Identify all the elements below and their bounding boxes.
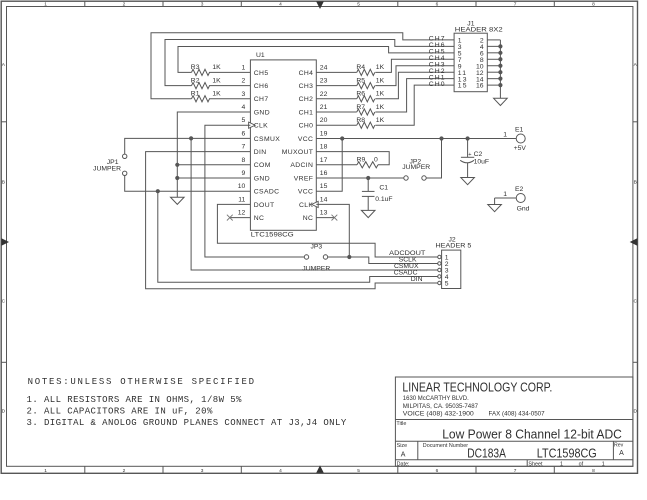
svg-text:1630 McCARTHY BLVD.: 1630 McCARTHY BLVD. [403,395,469,402]
svg-text:0.1uF: 0.1uF [375,196,392,203]
svg-text:2. ALL CAPACITORS ARE IN uF, 2: 2. ALL CAPACITORS ARE IN uF, 20% [27,406,213,416]
wire CH4 net (pin 24 to J1) [316,71,357,73]
svg-text:JUMPER: JUMPER [302,266,330,273]
border center arrow right [630,238,638,246]
wires J1 even pins to ground [487,39,500,41]
svg-text:0: 0 [374,157,378,164]
svg-text:5: 5 [242,117,246,124]
wire DOUT net pin 11 to J2 pin 1 [217,204,437,257]
svg-text:LTC1598CG: LTC1598CG [537,446,597,461]
svg-text:E2: E2 [515,186,524,193]
svg-text:NC: NC [254,215,265,222]
svg-text:15: 15 [320,183,328,190]
svg-text:CLK: CLK [299,202,313,209]
svg-text:6: 6 [436,2,439,8]
svg-text:12: 12 [238,210,246,217]
svg-text:of: of [579,461,584,467]
svg-text:10: 10 [238,183,246,190]
ground symbol at E2 [488,205,502,212]
svg-text:6: 6 [242,130,246,137]
svg-text:DIN: DIN [411,276,423,283]
svg-text:4: 4 [279,468,282,474]
wire GND pin 9 [177,177,250,179]
capacitor C1 [367,178,369,191]
svg-text:16: 16 [320,170,328,177]
resistor R6 [357,96,375,102]
svg-text:8: 8 [242,157,246,164]
svg-text:5: 5 [357,2,360,8]
resistor R4 [357,69,375,75]
svg-text:ADCIN: ADCIN [290,162,313,169]
border center arrow top [316,2,324,10]
IC U1 body (LTC1598CG 8-channel 12-bit ADC) [250,60,316,230]
junction C2 branch [466,136,470,140]
svg-text:14: 14 [320,196,328,203]
svg-text:R6: R6 [356,91,365,98]
svg-text:CH7: CH7 [254,96,269,103]
svg-text:HEADER 8X2: HEADER 8X2 [455,26,503,33]
svg-text:R5: R5 [356,77,365,84]
svg-text:3: 3 [201,2,204,8]
svg-text:7: 7 [514,2,517,8]
wire CH2 net (pin 22 to J1) [316,98,357,100]
border column tick marks [84,1,86,6]
svg-text:CH6: CH6 [254,83,269,90]
ground symbol below C2 [461,178,475,185]
svg-text:+: + [468,152,471,158]
svg-text:21: 21 [320,104,328,111]
svg-text:18: 18 [320,144,328,151]
jumper JP2 [404,176,408,180]
svg-text:1. ALL RESISTORS ARE IN OHMS,: 1. ALL RESISTORS ARE IN OHMS, 1/8W 5% [27,395,243,405]
svg-text:Date:: Date: [397,461,410,467]
svg-text:1K: 1K [376,117,385,124]
svg-text:GND: GND [254,109,270,116]
resistor R9 [357,162,378,168]
resistor R8 [357,122,375,128]
junction CSADC branch [156,189,160,193]
svg-text:VREF: VREF [294,175,314,182]
connector J1 box [454,33,487,91]
wire CSMUX pin 6 to JP1 [125,138,251,154]
svg-text:2: 2 [123,2,126,8]
wire MUXOUT pin 18 loop [316,152,389,165]
svg-text:C: C [633,299,637,305]
resistor R2 [192,83,210,89]
svg-text:JP3: JP3 [311,244,323,251]
border center arrow bottom [316,465,324,473]
svg-text:CH5: CH5 [254,70,269,77]
svg-text:D: D [633,409,637,415]
svg-text:LTC1598CG: LTC1598CG [251,232,294,239]
wire CSMUX net to J2 pin 3 [191,138,438,270]
svg-text:C2: C2 [474,151,483,158]
svg-text:R8: R8 [356,117,365,124]
svg-text:JUMPER: JUMPER [402,164,430,171]
svg-text:1: 1 [560,461,563,467]
svg-text:DC183A: DC183A [467,446,506,461]
svg-text:CH1: CH1 [299,109,314,116]
svg-text:B: B [2,180,5,186]
svg-text:DOUT: DOUT [254,202,275,209]
U1 pin 12 NC stub [230,217,251,219]
wire COM pin 8 [177,164,250,166]
svg-text:GND: GND [254,175,270,182]
svg-text:R4: R4 [356,64,365,71]
wire CH3 net (pin 23 to J1) [316,85,357,87]
svg-text:COM: COM [254,162,271,169]
svg-text:R2: R2 [191,77,200,84]
svg-text:7: 7 [514,468,517,474]
U1 pin 14 clock arrow [312,201,319,207]
svg-text:Title: Title [396,421,406,427]
svg-text:Sheet: Sheet [528,461,543,467]
jumper JP3 [304,255,308,259]
svg-text:1K: 1K [212,77,221,84]
svg-text:R1: R1 [191,91,200,98]
svg-text:CLK: CLK [254,123,268,130]
junction at COM pin 8 [175,163,179,167]
wire +5V rail (pin 19 to E1) [316,138,516,140]
svg-text:VCC: VCC [298,136,313,143]
svg-text:C: C [2,299,6,305]
svg-text:A: A [401,452,406,459]
ground symbol below U1 [171,197,185,204]
junction at GND pin 9 [175,176,179,180]
svg-text:LINEAR TECHNOLOGY CORP.: LINEAR TECHNOLOGY CORP. [402,379,552,394]
svg-text:1: 1 [44,468,47,474]
svg-text:+5V: +5V [514,145,527,152]
wire VCC rail to pin 15 [316,139,342,192]
svg-text:U1: U1 [256,52,265,59]
resistor R7 [357,109,375,115]
svg-text:CSMUX: CSMUX [254,136,280,143]
wire CH7 net (pin 3 to J1) [209,98,250,100]
svg-text:CH2: CH2 [299,96,314,103]
svg-text:1K: 1K [376,104,385,111]
svg-text:5: 5 [357,468,360,474]
wire CH6 net (pin 2 to J1) [209,85,250,87]
svg-text:15: 15 [458,83,468,90]
svg-text:Size: Size [397,443,408,449]
title block frame [395,377,633,466]
resistor R3 [192,69,210,75]
jumper JP1 [123,154,127,158]
wire VREF pin 16 to JP2 [316,177,404,179]
svg-text:1K: 1K [376,91,385,98]
svg-text:Document Number: Document Number [423,443,468,449]
svg-text:4: 4 [279,2,282,8]
svg-text:1: 1 [503,132,507,139]
svg-text:8: 8 [592,468,595,474]
ground symbol below J1 [494,98,508,105]
svg-text:23: 23 [320,78,328,85]
junction JP2 branch [439,136,443,140]
wire CH1 net (pin 21 to J1) [316,111,357,113]
svg-text:CH0: CH0 [429,81,446,88]
border center arrow left [1,238,9,246]
resistor R5 [357,83,375,89]
wire CSADC net to J2 pin 4 [158,191,438,282]
svg-text:VCC: VCC [298,189,313,196]
svg-text:A: A [619,450,624,457]
svg-text:1K: 1K [376,64,385,71]
svg-text:NC: NC [303,215,314,222]
svg-text:R9: R9 [357,157,366,164]
svg-text:NOTES:UNLESS OTHERWISE SPECIFI: NOTES:UNLESS OTHERWISE SPECIFIED [28,377,256,387]
svg-text:R3: R3 [191,64,200,71]
resistor R1 [192,96,210,102]
svg-text:8: 8 [592,2,595,8]
svg-text:3. DIGITAL & ANOLOG GROUND PLA: 3. DIGITAL & ANOLOG GROUND PLANES CONNEC… [27,418,347,428]
svg-text:13: 13 [320,210,328,217]
ground symbol below C1 [361,210,375,217]
svg-text:D: D [2,409,6,415]
svg-text:Low Power 8 Channel 12-bit ADC: Low Power 8 Channel 12-bit ADC [442,427,622,442]
J2 pin circles [438,255,441,258]
svg-text:1: 1 [242,64,246,71]
svg-text:3: 3 [201,468,204,474]
svg-text:HEADER 5: HEADER 5 [436,242,472,249]
svg-text:1K: 1K [376,77,385,84]
wire GND pin 4 [177,112,250,197]
svg-text:7: 7 [242,144,246,151]
svg-text:22: 22 [320,91,328,98]
junctions on J1 ground bus [498,44,502,48]
wire CH0 net (pin 20 to J1) [316,124,357,126]
svg-text:Gnd: Gnd [517,205,530,212]
svg-text:20: 20 [320,117,328,124]
test point E1 (+5V) [516,134,525,143]
junction CSMUX branch [189,136,193,140]
svg-text:E1: E1 [515,127,524,134]
svg-text:CH4: CH4 [299,70,314,77]
svg-text:B: B [634,180,637,186]
svg-text:VOICE (408) 432-1900: VOICE (408) 432-1900 [403,411,474,418]
wire JP2 to +5V rail [426,139,441,179]
junction VCC branch [340,136,344,140]
svg-text:CH3: CH3 [299,83,314,90]
svg-text:1: 1 [503,191,507,198]
junction C1 branch [366,176,370,180]
svg-text:11: 11 [238,196,245,203]
connector J2 box [442,250,461,288]
svg-text:3: 3 [242,91,246,98]
title block dividers [395,419,633,421]
svg-text:1K: 1K [212,64,221,71]
svg-text:9: 9 [242,170,246,177]
svg-text:R7: R7 [356,104,365,111]
U1 pin 5 clock arrow [249,122,256,128]
svg-text:Rev: Rev [614,442,624,448]
svg-text:16: 16 [476,83,484,90]
svg-text:CH0: CH0 [299,123,314,130]
svg-text:DIN: DIN [254,149,267,156]
svg-text:2: 2 [123,468,126,474]
capacitor C2 (polarized) [467,139,469,158]
svg-text:1K: 1K [212,91,221,98]
wire CLK pin 14 down [316,204,349,257]
svg-text:1: 1 [44,2,47,8]
wire ADCIN pin 17 [316,164,357,166]
svg-text:4: 4 [242,104,246,111]
svg-text:C1: C1 [379,185,388,192]
svg-text:2: 2 [242,78,246,85]
svg-text:JUMPER: JUMPER [93,166,121,173]
svg-text:24: 24 [320,64,328,71]
junction SCLK/CLK [347,255,351,259]
wire CH5 net (pin 1 to J1) [209,71,250,73]
wire CLK pin 5 to JP3 [205,125,304,257]
svg-text:10uF: 10uF [474,158,490,165]
svg-text:CSADC: CSADC [254,189,280,196]
svg-text:1: 1 [602,461,605,467]
svg-text:MUXOUT: MUXOUT [282,149,314,156]
svg-text:FAX (408) 434-0507: FAX (408) 434-0507 [489,411,545,418]
wire JP3 to SCLK J2 pin 2 [328,257,438,264]
svg-text:6: 6 [436,468,439,474]
wire DIN net pin 7 to J2 pin 5 [146,152,438,289]
svg-text:17: 17 [320,157,328,164]
border row tick marks [1,121,6,123]
svg-text:5: 5 [445,281,449,288]
svg-text:19: 19 [320,130,328,137]
svg-text:MILPITAS, CA. 95035-7487: MILPITAS, CA. 95035-7487 [403,403,479,410]
U1 pin 13 NC stub [316,217,334,219]
test point E2 (Gnd) [516,194,525,203]
wire CSADC pin 10 to JP1 [125,176,251,192]
